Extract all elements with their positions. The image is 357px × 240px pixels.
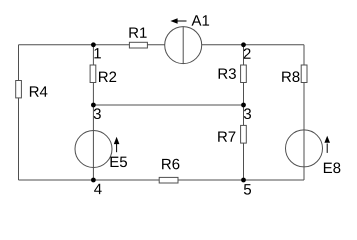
resistor R7 (241, 125, 247, 143)
source E5 internal wire (92, 131, 94, 168)
label R7 (218, 131, 235, 141)
node 1 label (94, 48, 100, 58)
ammeter A1 internal bar (182, 27, 184, 64)
source E5 emf arrow (114, 137, 120, 152)
label R1 (129, 27, 146, 37)
wire left rail (18, 45, 20, 180)
label E8 (324, 163, 340, 174)
wire right rail (303, 45, 305, 180)
resistor R3 (241, 65, 247, 83)
resistor R8 (301, 65, 307, 83)
ammeter A1 (165, 27, 202, 64)
label E5 (111, 157, 127, 167)
label R6 (162, 159, 179, 170)
wire middle node3-node3 (93, 104, 243, 106)
wire branch R2 node1-node3 (92, 45, 94, 105)
node 3 right label (244, 108, 251, 119)
resistor R6 (159, 177, 178, 183)
resistor R1 (129, 42, 147, 48)
node 3 left junction (91, 103, 96, 108)
resistor R4 (16, 81, 22, 98)
label R4 (30, 86, 48, 96)
node 4 label (94, 184, 102, 194)
wire top rail node1-node2 (19, 44, 305, 46)
node 2 junction (241, 42, 246, 47)
source E5 (75, 131, 112, 168)
source E8 (286, 130, 323, 167)
wire branch R7 node3-node5 (243, 105, 245, 180)
label A1 (192, 15, 210, 25)
node 2 label (244, 48, 251, 58)
node 5 label (244, 184, 251, 194)
node 3 left label (94, 108, 101, 119)
node 4 junction (91, 178, 96, 183)
node 1 junction (91, 42, 96, 47)
wire branch R3 node2-node3 (243, 45, 245, 105)
label R3 (219, 68, 236, 79)
source E8 emf arrow (324, 136, 330, 153)
label R2 (99, 72, 116, 82)
node 3 right junction (241, 103, 246, 108)
wire bottom rail node4-node5 (19, 179, 305, 181)
wire branch E5 node3-node4 (92, 105, 94, 180)
resistor R2 (90, 65, 96, 83)
source E8 internal wire (303, 130, 305, 167)
node 5 junction (241, 178, 246, 183)
ammeter A1 current arrow (170, 18, 186, 23)
label R8 (282, 71, 299, 82)
